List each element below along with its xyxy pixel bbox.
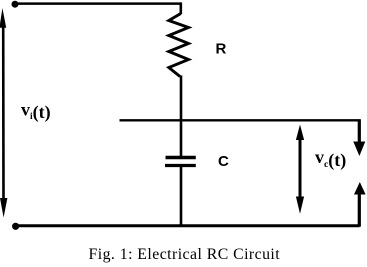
arrow vc (double-headed arrow for output voltage) [299,138,302,197]
svg-text:C: C [218,153,229,170]
arrow vi (left double-headed arrow for input voltage) [2,24,5,201]
node B (bottom-left junction dot) [12,223,19,230]
wire (middle horizontal output wire) [120,119,360,121]
capacitor C (top plate) [166,156,196,160]
wire (top horizontal from node A to resistor branch) [15,2,181,5]
capacitor C (bottom plate) [165,164,196,167]
resistor R [169,14,189,77]
wire (resistor bottom down to capacitor top plate) [180,76,183,158]
wire (right branch: corner from middle wire down, with arrowhead pointing down) [358,119,361,142]
wire (bottom horizontal) [15,224,360,227]
wire (right branch: corner from bottom wire up, with arrowhead pointing up) [358,194,361,227]
node A (top-left junction dot) [12,1,19,8]
wire (capacitor bottom plate down to bottom wire) [180,166,183,226]
svg-text:vi(t): vi(t) [21,100,51,124]
svg-text:R: R [216,41,227,58]
wire (top of resistor branch, corner down) [180,2,183,14]
svg-text:Fig. 1: Electrical RC Circuit: Fig. 1: Electrical RC Circuit [89,246,281,263]
